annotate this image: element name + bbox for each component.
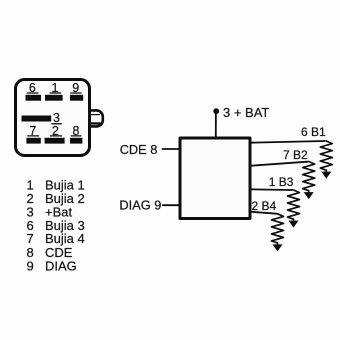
wire output B4	[250, 212, 277, 214]
pin bar 8	[70, 138, 82, 144]
wire output B1	[250, 141, 325, 143]
pin bar 1	[45, 95, 63, 101]
svg-text:CDE 8: CDE 8	[120, 142, 158, 157]
ground arrow B1	[325, 170, 327, 172]
svg-text:6 B1: 6 B1	[301, 125, 326, 139]
pin bar 9	[70, 95, 83, 101]
ground arrow B4	[277, 243, 279, 245]
svg-text:7: 7	[27, 231, 34, 246]
pin bar 3	[22, 116, 52, 122]
svg-text:DIAG 9: DIAG 9	[119, 198, 161, 213]
svg-text:1 B3: 1 B3	[269, 175, 294, 189]
glow plug B1 zigzag	[320, 141, 332, 170]
svg-text:7 B2: 7 B2	[283, 148, 308, 162]
ground arrow B2	[308, 191, 310, 193]
glow plug B3 zigzag	[288, 190, 300, 219]
wire CDE to U1	[163, 148, 181, 150]
glow plug B2 zigzag	[303, 162, 315, 191]
connector J1 body	[16, 80, 90, 156]
wire DIAG to U1	[163, 204, 180, 206]
wire output B2	[250, 162, 308, 166]
wire output B3	[250, 188, 293, 191]
control unit U1	[180, 138, 250, 219]
ground arrow B3	[293, 219, 295, 221]
svg-text:9: 9	[27, 259, 34, 274]
pin bar 2	[45, 138, 65, 144]
svg-text:DIAG: DIAG	[45, 259, 77, 274]
pin bar 6	[26, 95, 42, 101]
glow plug B4 zigzag	[272, 214, 284, 243]
svg-text:3 + BAT: 3 + BAT	[223, 105, 269, 120]
wire +BAT vertical	[215, 114, 217, 137]
connector keying tab	[90, 110, 103, 126]
pin bar 7	[26, 138, 40, 144]
svg-text:2 B4: 2 B4	[252, 199, 277, 213]
svg-text:Bujia 4: Bujia 4	[45, 231, 85, 246]
node 3 +BAT dot	[213, 108, 219, 114]
